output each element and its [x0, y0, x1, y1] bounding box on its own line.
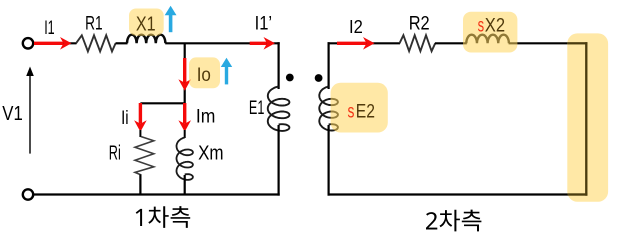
- polarity dot secondary: [315, 74, 323, 82]
- wire split T horizontal: [140, 102, 184, 104]
- wire sX2 to right corner: [509, 42, 588, 44]
- svg-text:s: s: [348, 102, 355, 123]
- svg-text:V1: V1: [2, 103, 23, 125]
- red arrow I1: [34, 37, 72, 50]
- wire Ri bottom lead: [139, 175, 141, 196]
- cyan arrow beside Io: [221, 58, 232, 85]
- svg-text:Ii: Ii: [121, 108, 129, 129]
- wire bottom primary: [34, 193, 280, 195]
- red arrow Io: [178, 58, 191, 91]
- svg-text:R1: R1: [85, 14, 103, 35]
- inductor sX2: [466, 35, 509, 44]
- label 1차측: [136, 206, 190, 228]
- wire under load highlight (tinted): [568, 42, 588, 195]
- wire secondary left vertical lower: [328, 125, 330, 196]
- svg-text:X1: X1: [136, 14, 156, 36]
- inductor E1 (primary winding): [268, 87, 290, 131]
- highlight Io: [189, 57, 220, 88]
- svg-text:Io: Io: [197, 65, 211, 86]
- polarity dot primary: [286, 74, 294, 82]
- resistor R2: [400, 35, 436, 51]
- inductor Xm: [177, 138, 193, 180]
- wire between R2 and sX2: [435, 42, 467, 44]
- svg-text:Ri: Ri: [109, 142, 121, 164]
- highlight load bar: [567, 33, 608, 201]
- wire Xm top lead: [184, 130, 186, 138]
- svg-text:Im: Im: [196, 107, 216, 128]
- wire top secondary (left of R2): [328, 42, 401, 44]
- wire Xm bottom lead: [184, 175, 186, 195]
- red arrow I1': [250, 37, 275, 50]
- wire Ri top lead: [139, 130, 141, 137]
- wire X1 to corner: [165, 42, 280, 44]
- svg-text:Xm: Xm: [198, 142, 224, 164]
- inductor sE2 (secondary winding): [319, 87, 338, 131]
- resistor Ri: [135, 137, 154, 176]
- resistor R1: [76, 35, 116, 51]
- wire Io branch vertical: [184, 43, 186, 104]
- red arrow I2: [337, 37, 375, 50]
- wire secondary left vertical upper: [328, 42, 330, 89]
- svg-text:X2: X2: [485, 16, 505, 37]
- wire secondary right vertical: [585, 42, 587, 195]
- svg-text:E1: E1: [249, 98, 265, 119]
- svg-text:R2: R2: [409, 14, 430, 35]
- highlight sX2: [463, 12, 517, 53]
- terminal bottom-left: [23, 189, 33, 199]
- red arrow Im: [178, 103, 191, 132]
- cyan arrow beside X1: [165, 6, 177, 32]
- highlight sE2: [331, 83, 388, 133]
- svg-text:I1’: I1’: [255, 14, 273, 35]
- svg-text:I2: I2: [349, 17, 363, 37]
- terminal top-left: [23, 38, 33, 48]
- highlight X1: [129, 9, 164, 36]
- wire top primary (terminal to R1): [34, 42, 77, 44]
- svg-text:E2: E2: [356, 102, 375, 123]
- wire bottom secondary: [328, 193, 588, 195]
- wire between R1 and X1: [116, 42, 128, 44]
- label 2차측: [426, 210, 481, 232]
- V1 arrow: [26, 67, 34, 154]
- wire primary right vertical lower: [278, 125, 280, 196]
- inductor X1: [127, 35, 165, 44]
- red arrow Ii: [134, 103, 147, 132]
- svg-text:I1: I1: [44, 18, 55, 39]
- svg-text:s: s: [478, 16, 485, 37]
- wire primary right vertical upper: [278, 42, 280, 89]
